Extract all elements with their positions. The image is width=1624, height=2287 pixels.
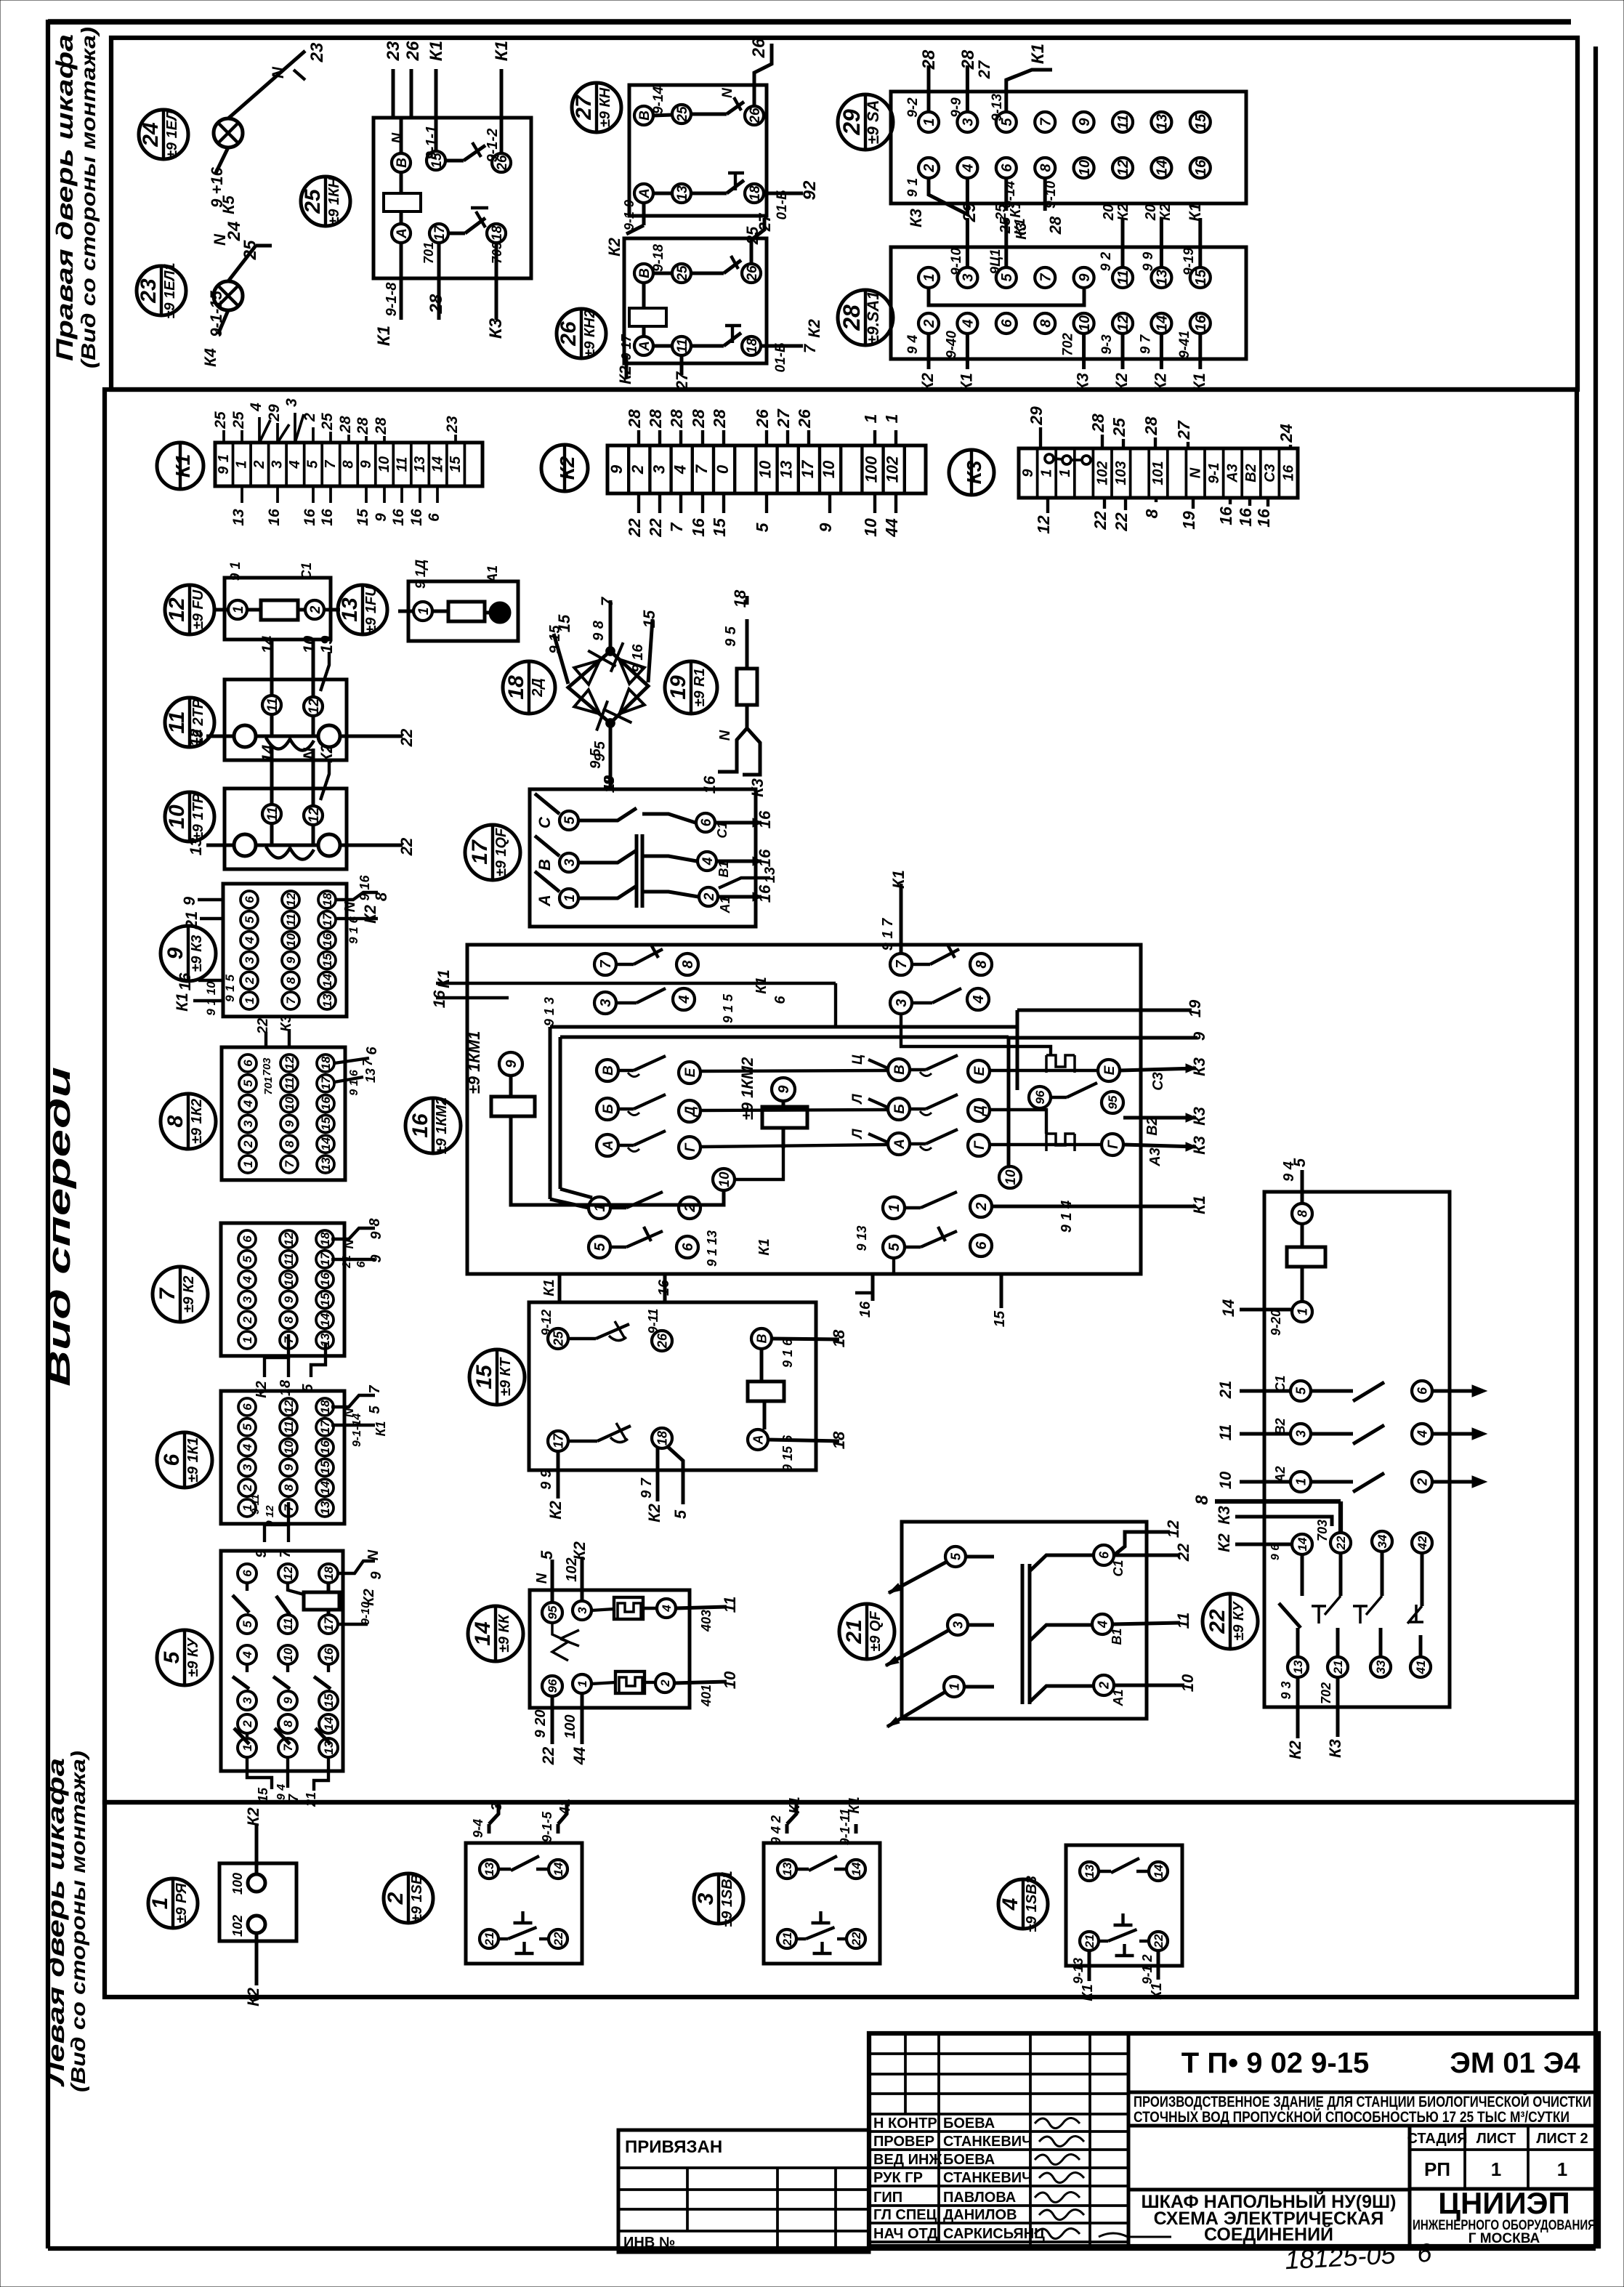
svg-text:15: 15 [472, 1364, 496, 1389]
svg-text:13: 13 [780, 1862, 794, 1876]
svg-text:7: 7 [894, 960, 910, 969]
svg-text:22: 22 [397, 837, 416, 856]
wires below component 29 labels 9 1 К3 9-14 25 К1 9-10 28 [905, 178, 1065, 235]
svg-text:К1: К1 [374, 326, 394, 346]
svg-text:702: 702 [1319, 1682, 1333, 1704]
svg-text:8: 8 [1295, 1210, 1309, 1217]
svg-text:703: 703 [1315, 1520, 1330, 1541]
svg-text:9-19: 9-19 [1181, 248, 1197, 275]
svg-text:11: 11 [721, 1597, 739, 1613]
title block stage/sheet table [1407, 2131, 1588, 2180]
svg-text:2: 2 [384, 1892, 408, 1905]
contactor 1КМ2 main contacts В Е Б Д А Г [850, 1054, 990, 1156]
svg-text:7: 7 [692, 464, 711, 474]
svg-text:703: 703 [261, 1057, 273, 1076]
svg-text:К2: К2 [918, 372, 937, 392]
svg-text:ЛИСТ 2: ЛИСТ 2 [1536, 2131, 1588, 2147]
svg-text:А1: А1 [718, 896, 732, 913]
svg-text:РП: РП [1424, 2158, 1450, 2180]
svg-text:11: 11 [284, 913, 298, 927]
svg-text:К2: К2 [556, 456, 578, 480]
svg-text:К1: К1 [171, 454, 194, 478]
svg-text:9 11: 9 11 [249, 1494, 262, 1514]
svg-text:9 5: 9 5 [588, 748, 604, 769]
svg-text:11: 11 [265, 698, 280, 712]
svg-text:9 15 6: 9 15 6 [780, 1435, 795, 1472]
svg-text:К3: К3 [1190, 1057, 1208, 1076]
svg-text:1: 1 [1557, 2158, 1567, 2180]
svg-text:К1: К1 [173, 993, 191, 1012]
svg-text:22: 22 [1091, 511, 1110, 531]
wire bus from 28 terminal 1 to terminal 9 [929, 289, 1084, 305]
svg-text:2: 2 [1415, 1478, 1429, 1486]
component 7 bottom wires labels К2 18 5 [254, 1334, 326, 1398]
terminal strip K1 [215, 443, 482, 486]
svg-text:16: 16 [176, 972, 194, 991]
svg-text:7: 7 [155, 1287, 179, 1300]
svg-text:Г: Г [1106, 1140, 1121, 1149]
svg-text:8: 8 [367, 1218, 383, 1227]
component 3 designator circle ±9 1SВ1 [694, 1871, 743, 1927]
svg-text:28: 28 [710, 409, 729, 429]
svg-text:12: 12 [283, 1056, 296, 1070]
svg-text:13: 13 [482, 1862, 496, 1876]
svg-text:Л: Л [850, 1094, 865, 1105]
svg-text:К2: К2 [805, 318, 823, 338]
svg-text:(Вид со стороны монтажа): (Вид со стороны монтажа) [67, 1751, 89, 2092]
component 9 designator circle ±9 К3 [161, 926, 216, 981]
svg-text:5: 5 [592, 1243, 608, 1251]
svg-text:7: 7 [667, 522, 686, 532]
svg-text:9 8: 9 8 [591, 620, 607, 641]
wire below lamp 24 labels 9 +16 К5 [208, 148, 238, 214]
svg-text:6: 6 [241, 1403, 254, 1411]
svg-text:1: 1 [882, 414, 901, 424]
svg-text:ЛИСТ: ЛИСТ [1476, 2131, 1516, 2147]
svg-text:10: 10 [165, 804, 189, 829]
svg-text:9 9: 9 9 [538, 1469, 554, 1490]
svg-text:К2: К2 [616, 365, 634, 384]
svg-text:1: 1 [231, 606, 246, 614]
svg-text:21: 21 [482, 1932, 496, 1947]
svg-text:6: 6 [1415, 1387, 1429, 1395]
svg-text:1: 1 [886, 1203, 902, 1211]
svg-text:В1: В1 [1110, 1628, 1124, 1645]
svg-text:16: 16 [319, 509, 336, 526]
svg-text:10: 10 [376, 456, 392, 472]
svg-text:N: N [365, 1549, 381, 1560]
component 27 designator circle ±9 КН [572, 83, 621, 132]
svg-text:24: 24 [139, 122, 163, 148]
svg-text:17: 17 [319, 1076, 333, 1090]
svg-text:41: 41 [557, 1799, 573, 1815]
svg-text:5: 5 [241, 1256, 254, 1263]
terminal strip K1 designator circle [157, 443, 203, 489]
svg-text:9: 9 [281, 1697, 295, 1704]
svg-text:16: 16 [408, 1113, 432, 1138]
svg-text:1: 1 [1295, 1308, 1309, 1315]
svg-text:3: 3 [283, 398, 300, 407]
svg-text:102: 102 [564, 1557, 580, 1581]
svg-text:13: 13 [675, 185, 690, 201]
svg-text:СТАДИЯ: СТАДИЯ [1407, 2131, 1467, 2147]
svg-text:17: 17 [320, 912, 334, 927]
svg-text:8: 8 [163, 1115, 187, 1127]
component 6 bottom wires labels 9 11 9 12 9 7 [249, 1494, 294, 1558]
component 2 top wires labels 9-4 3 9-1-5 41 [471, 1799, 573, 1842]
svg-text:2: 2 [921, 164, 937, 172]
svg-text:101: 101 [1150, 461, 1166, 485]
component 23 designator circle ±9 1ЕЛ1 [137, 262, 186, 318]
svg-text:21: 21 [1083, 1935, 1096, 1949]
svg-text:17: 17 [551, 1433, 565, 1448]
svg-text:15: 15 [710, 517, 729, 537]
svg-text:9: 9 [1077, 118, 1093, 126]
svg-text:9 7: 9 7 [639, 1477, 655, 1499]
svg-text:4: 4 [241, 1275, 254, 1283]
left door region box [105, 1802, 1577, 1997]
svg-text:12: 12 [1164, 1520, 1182, 1538]
svg-text:17: 17 [468, 839, 492, 865]
svg-text:25: 25 [241, 240, 260, 260]
component 15 bottom wires labels 9 9 К2 9 7 К2 5 [538, 1446, 690, 1522]
wire from lamp 24 up with labels N 23 [228, 42, 327, 118]
svg-text:9: 9 [1190, 1031, 1208, 1041]
svg-text:С3: С3 [1150, 1072, 1166, 1091]
svg-text:9: 9 [816, 523, 835, 532]
svg-text:28: 28 [373, 417, 389, 435]
right door region box [111, 38, 1577, 390]
svg-text:К3: К3 [278, 1015, 294, 1031]
svg-text:27: 27 [673, 371, 691, 390]
svg-text:ЦНИИЭП: ЦНИИЭП [1438, 2186, 1570, 2220]
svg-text:К1: К1 [756, 1238, 772, 1255]
svg-text:15: 15 [640, 610, 658, 628]
svg-text:К1: К1 [541, 1279, 557, 1296]
svg-text:18: 18 [322, 1566, 336, 1580]
svg-text:К2: К2 [244, 1807, 262, 1826]
svg-text:С3: С3 [1262, 464, 1278, 483]
lamp HL of component 24 [214, 118, 243, 148]
title block organization [1413, 2186, 1596, 2246]
svg-text:9: 9 [1020, 469, 1036, 477]
svg-text:2: 2 [241, 1140, 255, 1148]
svg-text:9 16: 9 16 [357, 875, 372, 901]
svg-text:14: 14 [320, 973, 334, 987]
svg-text:ПАВЛОВА: ПАВЛОВА [943, 2190, 1016, 2206]
svg-text:±9 1ЕЛ1: ±9 1ЕЛ1 [162, 262, 178, 318]
svg-text:13: 13 [1083, 1864, 1096, 1878]
svg-text:К1: К1 [787, 1796, 803, 1813]
svg-text:19: 19 [318, 635, 336, 653]
contactor 1КМ1 aux terminal 10 [713, 1169, 735, 1190]
svg-text:21: 21 [182, 911, 201, 929]
svg-text:1: 1 [241, 1744, 254, 1751]
component 14 internals thermal contacts [542, 1597, 739, 1707]
svg-text:N: N [269, 66, 287, 78]
svg-text:9 1: 9 1 [228, 562, 243, 581]
svg-text:8: 8 [282, 1484, 296, 1491]
svg-text:К1: К1 [847, 1796, 863, 1813]
contactor 1КМ2 aux terminal 10 [999, 1166, 1021, 1188]
svg-text:5: 5 [305, 460, 321, 469]
svg-text:9-1-15: 9-1-15 [207, 290, 225, 336]
svg-text:В: В [536, 859, 554, 871]
svg-text:95: 95 [1106, 1095, 1120, 1109]
svg-text:9 1 6: 9 1 6 [348, 1070, 360, 1096]
component 22 wires 8 К3 К2 with label 703 [1192, 1495, 1341, 1552]
svg-text:2: 2 [629, 464, 647, 475]
svg-text:4: 4 [961, 164, 977, 172]
component 16 bottom-left aux contacts 1 2 5 6 [589, 1192, 772, 1267]
svg-text:2: 2 [241, 1316, 254, 1324]
component 22 coil circuit terminal 8 and coil [1219, 1158, 1325, 1336]
svg-text:2: 2 [241, 1720, 254, 1728]
svg-text:±9 1К1: ±9 1К1 [185, 1437, 201, 1483]
svg-text:28: 28 [1142, 416, 1160, 436]
svg-text:ГЛ СПЕЦ: ГЛ СПЕЦ [873, 2207, 937, 2223]
jumper with small circles in K3 cells 2-3 [1045, 454, 1091, 464]
svg-text:±9 1SВ: ±9 1SВ [409, 1874, 425, 1923]
svg-text:5: 5 [241, 1621, 254, 1628]
svg-text:3: 3 [694, 1892, 718, 1905]
svg-text:К1: К1 [1190, 1195, 1208, 1214]
svg-text:±9 К2: ±9 К2 [181, 1275, 197, 1312]
component 4 designator circle ±9 1SВ3 [998, 1876, 1048, 1932]
terminal strip K2 [607, 445, 926, 493]
component 16 bottom-right aux contacts 1 2 5 6 [855, 1192, 1075, 1258]
svg-text:8: 8 [1142, 509, 1161, 518]
wires above component 29 labels 9-2 28 9-9 28 27 9-13 К1 [905, 44, 1052, 121]
component 5 bottom wires labels 15 9 4 7 21 [247, 1757, 328, 1807]
svg-text:13: 13 [318, 1501, 332, 1514]
svg-text:В: В [637, 110, 653, 121]
svg-text:26: 26 [745, 265, 760, 282]
svg-text:20: 20 [1101, 204, 1117, 221]
svg-text:1: 1 [148, 1897, 172, 1910]
svg-text:22: 22 [1205, 1609, 1229, 1634]
svg-text:±9 1ТР: ±9 1ТР [190, 793, 206, 840]
component 16 right aux relay contacts 96 95 with pulse symbols [1029, 1055, 1123, 1155]
svg-text:29: 29 [1027, 406, 1046, 426]
svg-text:9: 9 [180, 896, 198, 905]
svg-text:12: 12 [284, 892, 298, 906]
component 13 fuse box [398, 560, 518, 641]
svg-text:5: 5 [538, 1550, 556, 1560]
svg-text:21: 21 [304, 1792, 318, 1807]
svg-text:22: 22 [849, 1932, 863, 1946]
wire from 27 terminal А down label К2 [605, 200, 644, 257]
svg-text:21: 21 [1331, 1661, 1345, 1675]
svg-text:24: 24 [225, 222, 244, 242]
component 14 top wires labels 5 N 102 К2 [534, 1541, 589, 1602]
svg-text:±9 1К2: ±9 1К2 [189, 1099, 205, 1144]
svg-text:14: 14 [259, 745, 277, 762]
svg-text:3: 3 [241, 1464, 254, 1471]
svg-text:13: 13 [1291, 1660, 1305, 1674]
svg-text:6: 6 [680, 1243, 696, 1251]
svg-text:9: 9 [368, 1254, 384, 1263]
svg-text:26: 26 [795, 409, 814, 429]
svg-text:8: 8 [284, 977, 298, 984]
svg-text:К2: К2 [361, 904, 379, 924]
svg-text:22: 22 [625, 518, 644, 538]
svg-text:СОЕДИНЕНИЙ: СОЕДИНЕНИЙ [1204, 2223, 1333, 2245]
svg-text:Б: Б [601, 1104, 616, 1113]
svg-text:6: 6 [426, 513, 443, 522]
svg-text:9 3: 9 3 [1279, 1681, 1293, 1699]
svg-text:С1: С1 [299, 562, 315, 580]
svg-text:16: 16 [266, 509, 283, 526]
component 7 designator circle ±9 1К [153, 1267, 208, 1322]
svg-text:Б: Б [892, 1104, 908, 1113]
svg-text:2: 2 [251, 460, 267, 469]
svg-text:28: 28 [646, 409, 665, 429]
svg-text:9-1-9: 9-1-9 [622, 200, 637, 230]
svg-text:18: 18 [830, 1431, 848, 1449]
svg-text:22: 22 [539, 1746, 557, 1765]
svg-text:12: 12 [282, 1400, 296, 1413]
wires entering component 16 from left labels К1 16 [430, 969, 836, 1027]
svg-text:13: 13 [187, 838, 205, 855]
svg-text:Е: Е [683, 1067, 698, 1077]
svg-text:Г МОСКВА: Г МОСКВА [1469, 2231, 1540, 2246]
component 4 pushbutton box [1066, 1845, 1182, 1966]
wire from lamp 23 up labels N 24 25 [211, 222, 272, 281]
svg-text:4: 4 [1095, 1621, 1110, 1629]
svg-text:6: 6 [160, 1453, 184, 1466]
svg-text:В2: В2 [1243, 464, 1259, 483]
svg-text:18: 18 [731, 589, 749, 608]
svg-text:А: А [395, 228, 410, 239]
svg-text:СТАНКЕВИЧ: СТАНКЕВИЧ [943, 2134, 1032, 2150]
svg-text:9-20: 9-20 [1269, 1310, 1283, 1336]
svg-text:16: 16 [1280, 464, 1296, 481]
svg-text:15: 15 [318, 1460, 332, 1474]
svg-text:13: 13 [762, 867, 778, 883]
svg-text:11: 11 [394, 457, 410, 472]
svg-text:15: 15 [448, 456, 464, 472]
wires below component 26 labels 9-17 К2 27 [616, 334, 691, 391]
svg-text:±9 К3: ±9 К3 [189, 935, 205, 972]
svg-text:5: 5 [160, 1650, 184, 1663]
svg-text:15: 15 [1193, 113, 1209, 130]
svg-text:16: 16 [322, 1647, 336, 1661]
svg-text:3: 3 [270, 460, 286, 468]
svg-text:6: 6 [241, 1060, 255, 1067]
svg-text:12: 12 [165, 597, 189, 622]
svg-text:9-1-5: 9-1-5 [540, 1811, 554, 1842]
svg-text:±9 1ЕЛ: ±9 1ЕЛ [164, 110, 180, 158]
svg-text:10: 10 [300, 635, 318, 653]
svg-text:4: 4 [241, 1651, 254, 1659]
component 18 diode bridge [568, 642, 648, 730]
svg-text:В1: В1 [716, 860, 731, 877]
svg-text:6: 6 [243, 896, 256, 903]
svg-text:33: 33 [1374, 1660, 1388, 1674]
svg-text:К3: К3 [963, 460, 985, 484]
svg-text:11: 11 [282, 1253, 296, 1266]
svg-text:К2: К2 [1158, 203, 1173, 220]
svg-text:16: 16 [857, 1301, 873, 1318]
svg-text:2: 2 [974, 1202, 990, 1211]
component 18 designator circle 2Д [503, 661, 555, 714]
svg-text:N: N [342, 1239, 356, 1249]
svg-text:±9 FU: ±9 FU [190, 589, 206, 629]
svg-text:Д: Д [972, 1105, 987, 1117]
svg-text:К1: К1 [373, 1421, 388, 1436]
svg-text:14: 14 [552, 1862, 565, 1876]
svg-text:1: 1 [921, 273, 937, 281]
svg-text:9 5: 9 5 [723, 626, 739, 647]
svg-text:Ц: Ц [850, 1054, 865, 1065]
title block object description [1134, 2093, 1591, 2126]
svg-text:9: 9 [283, 1120, 296, 1127]
component 22 selector contacts rows 5-6 3-4 1-2 with exit arrows [1216, 1375, 1487, 1492]
svg-text:8: 8 [680, 960, 696, 969]
svg-text:19: 19 [666, 675, 690, 700]
svg-text:±9 1КМ2: ±9 1КМ2 [434, 1097, 450, 1155]
svg-text:13: 13 [412, 456, 428, 472]
svg-text:±9 1КН: ±9 1КН [326, 177, 342, 225]
svg-text:28: 28 [1088, 414, 1107, 433]
svg-text:10: 10 [717, 1171, 732, 1187]
svg-text:9-1-1: 9-1-1 [424, 126, 440, 160]
svg-text:9Ц1: 9Ц1 [988, 249, 1003, 275]
component 29 switch ±9 SA [838, 92, 1246, 203]
svg-text:1: 1 [241, 1336, 254, 1343]
svg-text:5: 5 [241, 1424, 254, 1431]
svg-text:Т П• 9 02 9-15: Т П• 9 02 9-15 [1181, 2047, 1369, 2079]
svg-text:42: 42 [1415, 1536, 1429, 1550]
svg-text:8: 8 [341, 460, 357, 469]
svg-text:11: 11 [1115, 115, 1131, 130]
title block roles and names [873, 2115, 1045, 2242]
svg-text:9-4: 9-4 [471, 1819, 485, 1838]
svg-text:701: 701 [262, 1076, 275, 1094]
svg-text:±9 1FU: ±9 1FU [363, 586, 379, 634]
svg-text:26: 26 [557, 321, 581, 347]
svg-text:14: 14 [1155, 160, 1171, 176]
svg-text:18: 18 [655, 1431, 669, 1445]
component 22 lower contacts 14-13 22-21 34-33 42-41 [1269, 1531, 1432, 1677]
svg-text:N: N [300, 747, 318, 759]
svg-text:БОЕВА: БОЕВА [943, 2115, 995, 2131]
svg-text:19: 19 [1186, 999, 1204, 1017]
wires below strip K3 with labels [1034, 499, 1273, 534]
svg-text:1: 1 [562, 895, 578, 903]
svg-text:15: 15 [555, 614, 573, 632]
terminal strip K3 designator circle [949, 450, 994, 495]
svg-text:±9.SA1: ±9.SA1 [864, 291, 882, 344]
svg-text:44: 44 [570, 1747, 589, 1765]
title block drawing name [1142, 2190, 1397, 2245]
svg-text:9 1 5: 9 1 5 [223, 975, 237, 1002]
svg-text:18: 18 [830, 1329, 848, 1347]
svg-text:4: 4 [700, 857, 716, 866]
wire 9 1 7 К1 going up from contact 7 [880, 870, 908, 953]
contactor 1КМ1 main contacts В Е Б Д А Г [597, 1056, 700, 1158]
svg-text:9 1 5: 9 1 5 [721, 993, 735, 1023]
svg-text:01-Б: 01-Б [773, 343, 788, 373]
svg-text:11: 11 [283, 1077, 296, 1090]
svg-text:15: 15 [318, 1292, 332, 1306]
svg-text:К1: К1 [754, 977, 769, 993]
svg-text:К2: К2 [546, 1500, 565, 1520]
svg-text:N: N [720, 87, 735, 98]
svg-text:9-10: 9-10 [360, 1602, 372, 1625]
svg-text:9 1 6: 9 1 6 [780, 1338, 795, 1368]
